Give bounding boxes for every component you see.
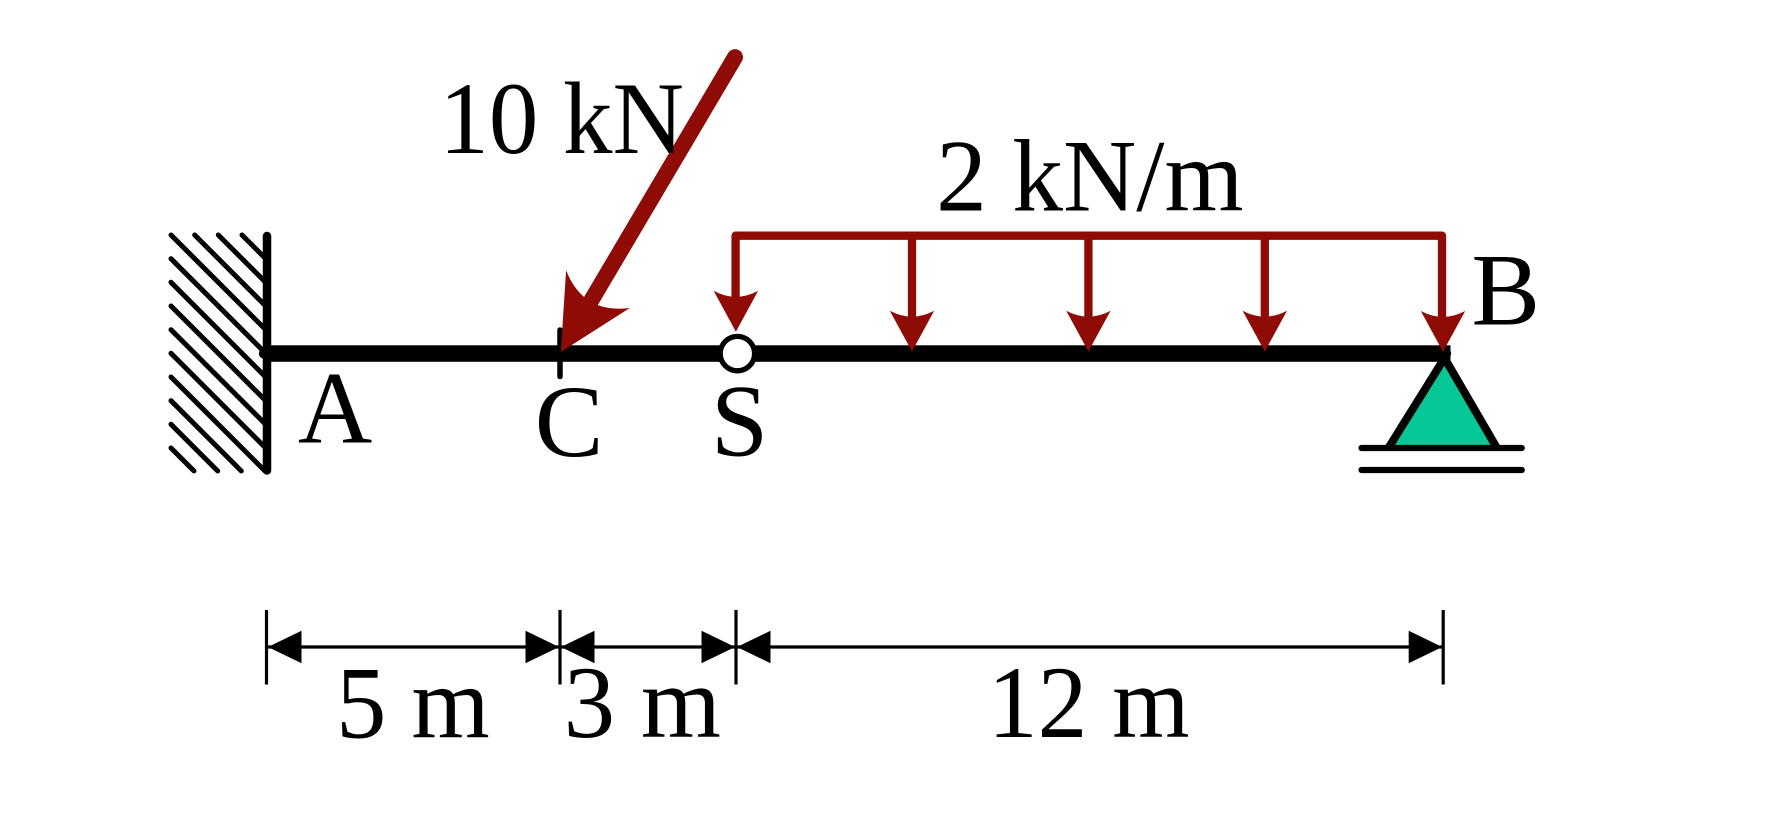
roller support ground line bbox=[1362, 467, 1522, 473]
roller support triangle at B bbox=[1388, 358, 1498, 449]
node at B bbox=[1440, 348, 1451, 359]
dimension arrowhead at S pointing left bbox=[737, 631, 771, 664]
dimension tick at S bbox=[734, 610, 737, 685]
hinge S (internal pin) bbox=[720, 336, 754, 370]
distributed load top line bbox=[736, 236, 1442, 323]
distributed load arrow 3 bbox=[1066, 232, 1110, 352]
node at A bbox=[259, 348, 269, 358]
beam AB bbox=[267, 345, 1451, 362]
svg-text:A: A bbox=[298, 351, 372, 465]
fixed support wall line bbox=[263, 236, 272, 471]
dimension tick at B bbox=[1442, 610, 1445, 685]
distributed load arrow 5 (at B) bbox=[1421, 311, 1465, 352]
svg-text:12 m: 12 m bbox=[988, 645, 1190, 759]
point C tick mark bbox=[557, 330, 563, 377]
fixed support hatching bbox=[171, 235, 267, 471]
point load 10 kN arrow bbox=[561, 57, 735, 352]
distributed load arrow 1 (at S) bbox=[714, 291, 758, 332]
dimension arrowhead at C pointing left bbox=[561, 631, 595, 664]
dimension arrowhead at A pointing left bbox=[268, 631, 302, 664]
dimension arrowhead at S pointing right bbox=[702, 631, 736, 664]
distributed load arrow 4 bbox=[1243, 232, 1287, 352]
dimension tick at C bbox=[558, 610, 561, 685]
svg-text:B: B bbox=[1471, 234, 1540, 348]
distributed load arrow 2 bbox=[890, 232, 934, 352]
dimension tick at A bbox=[265, 610, 268, 685]
dimension arrowhead at C pointing right bbox=[526, 631, 560, 664]
svg-text:S: S bbox=[711, 364, 768, 478]
dimension arrowhead at B pointing right bbox=[1409, 631, 1443, 664]
svg-text:C: C bbox=[535, 365, 604, 479]
svg-text:10 kN: 10 kN bbox=[439, 61, 684, 175]
svg-text:5 m: 5 m bbox=[336, 646, 490, 760]
svg-text:2 kN/m: 2 kN/m bbox=[936, 120, 1243, 234]
dimension line bbox=[267, 645, 1443, 648]
svg-text:3 m: 3 m bbox=[564, 646, 721, 760]
roller support base line bbox=[1362, 445, 1522, 451]
